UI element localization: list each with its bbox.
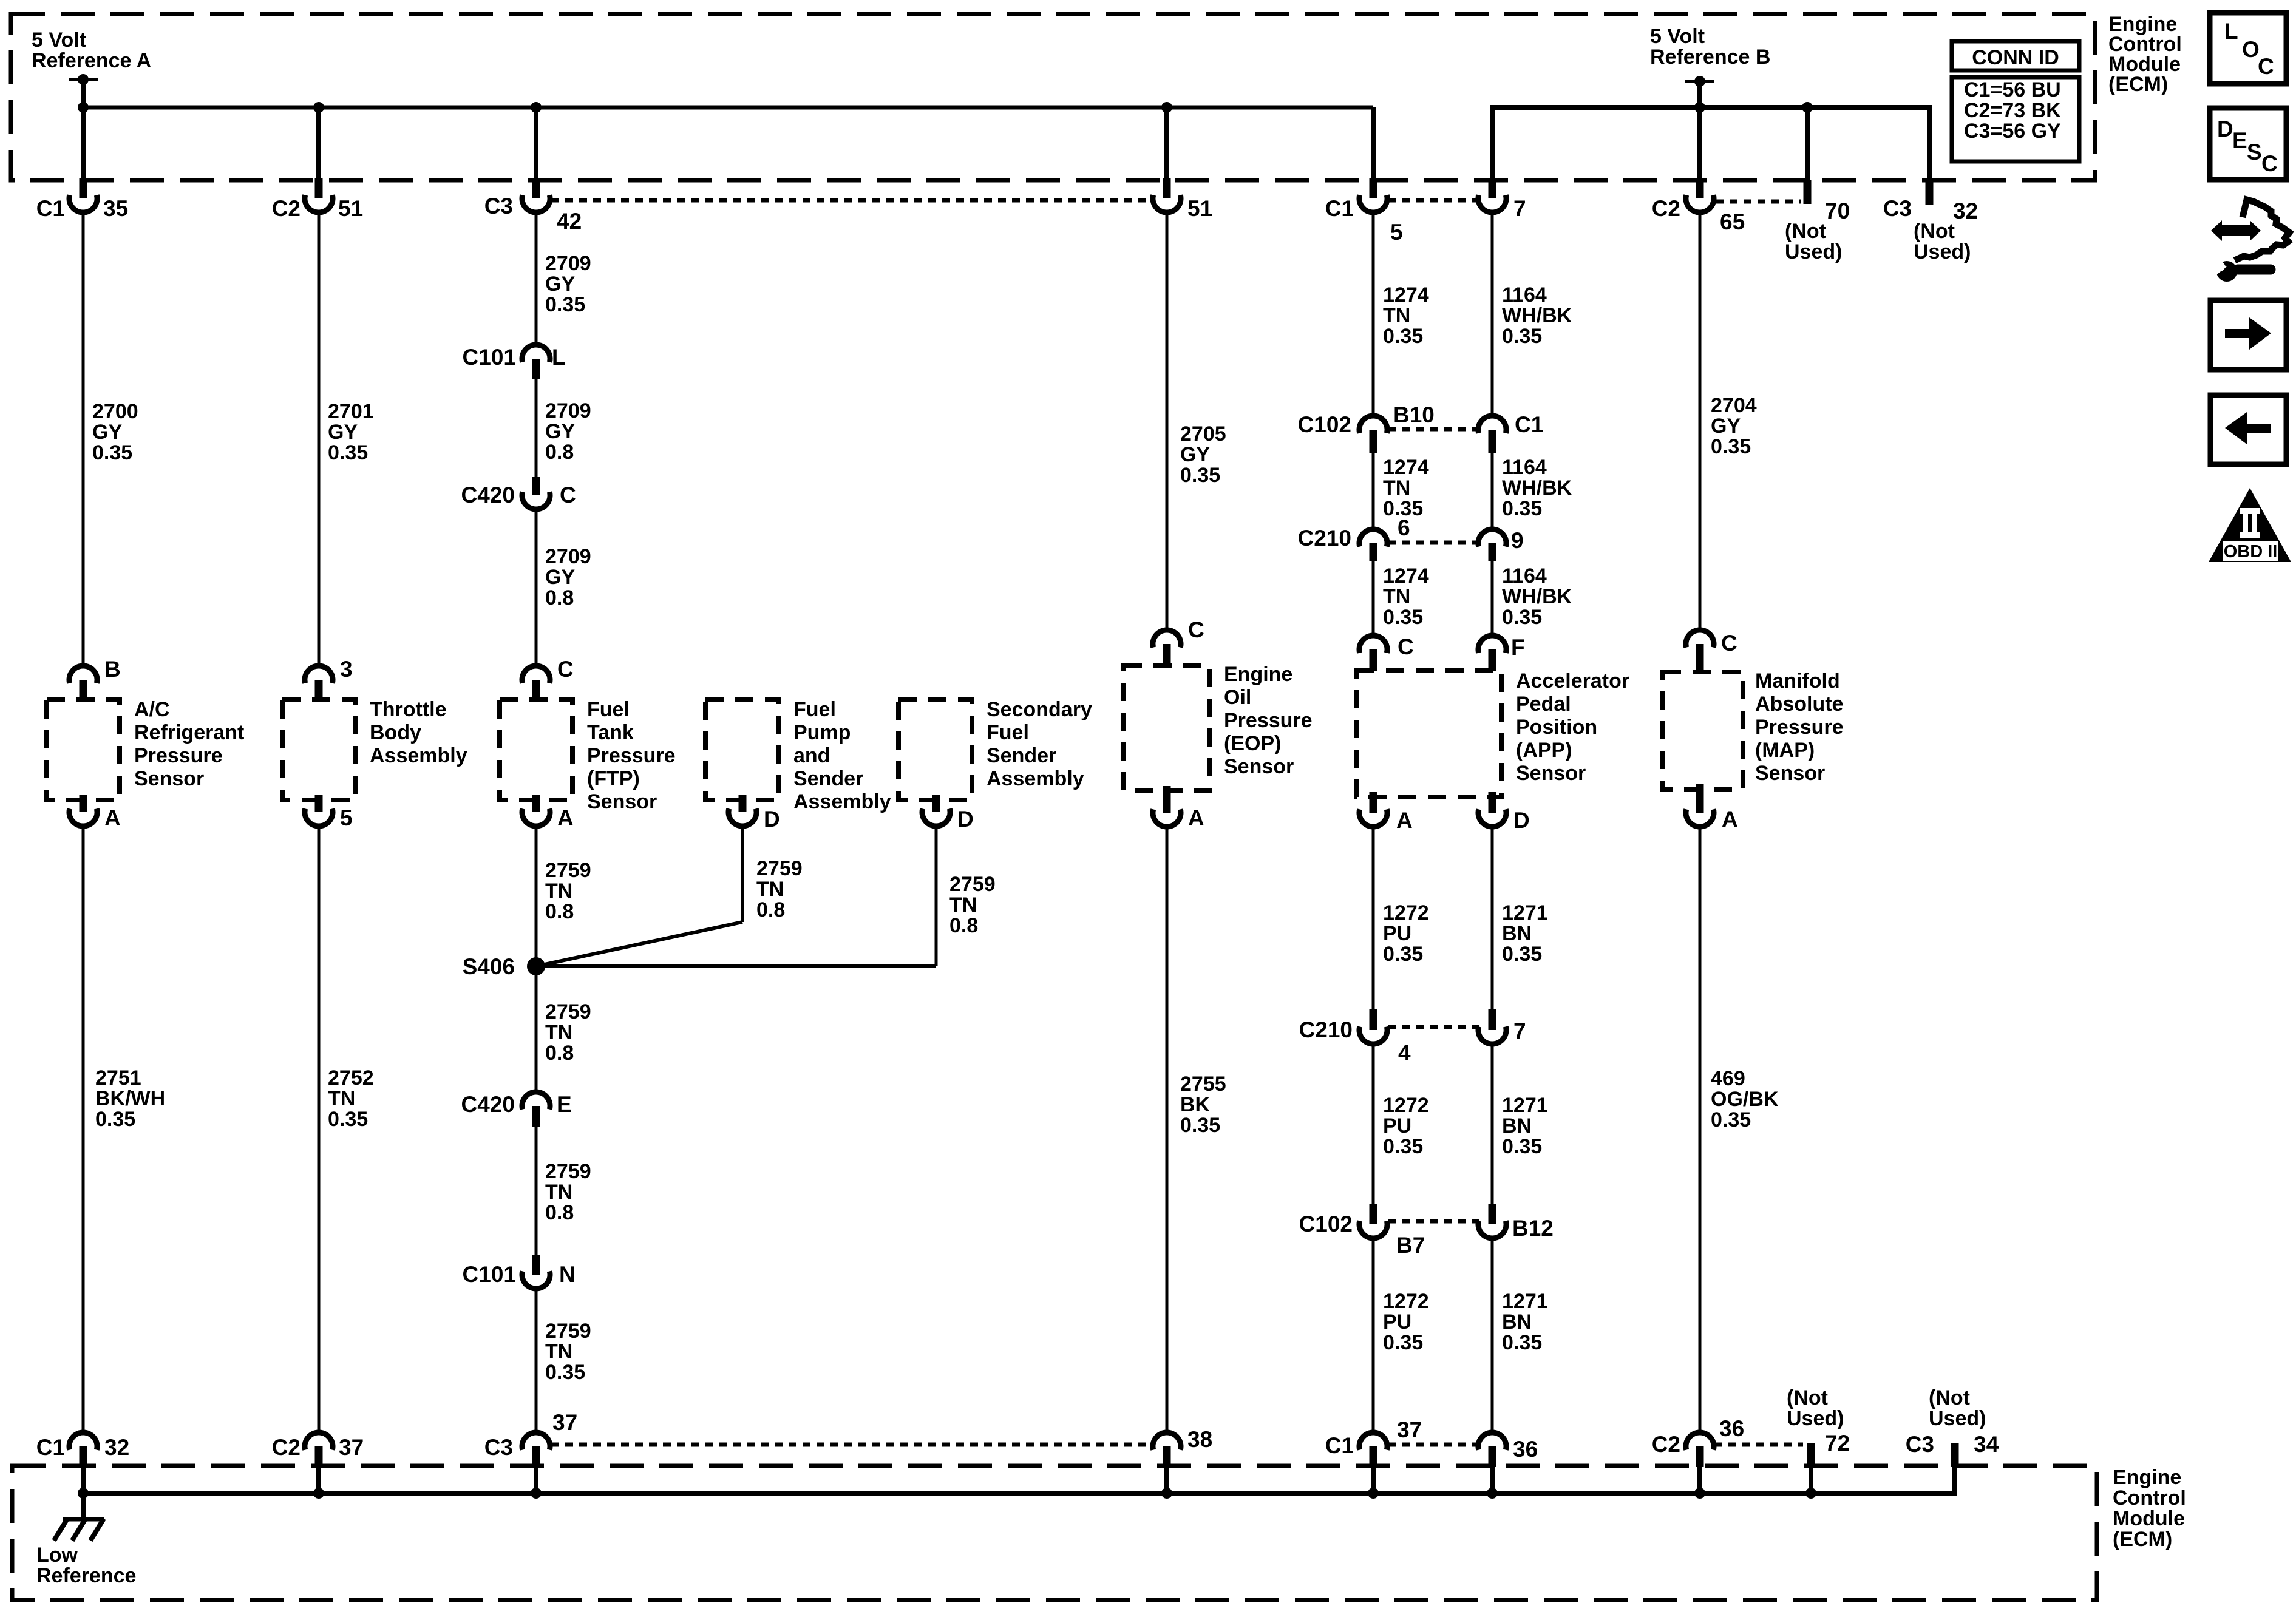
svg-text:Fuel: Fuel — [587, 698, 630, 721]
svg-text:Oil: Oil — [1224, 686, 1251, 709]
wire: bus B to pin C2-65 — [1697, 107, 1702, 180]
svg-text:65: 65 — [1720, 209, 1745, 234]
svg-text:C: C — [2261, 151, 2278, 176]
svg-text:Reference A: Reference A — [32, 49, 151, 72]
svg-text:1274: 1274 — [1383, 283, 1429, 307]
svg-text:Pressure: Pressure — [134, 744, 223, 767]
svg-text:0.8: 0.8 — [545, 900, 574, 923]
svg-text:32: 32 — [1953, 198, 1978, 223]
svg-text:C420: C420 — [461, 1092, 515, 1117]
svg-text:GY: GY — [1711, 415, 1741, 438]
svg-text:D: D — [2217, 117, 2233, 141]
svg-text:2759: 2759 — [545, 1160, 591, 1183]
svg-text:2701: 2701 — [328, 400, 374, 423]
component: Secondary Fuel Sender Assembly — [898, 698, 1092, 800]
ECM pin C2-65 — [1652, 178, 1745, 234]
wire label 1274 TN 0.35 — [1383, 564, 1429, 629]
svg-text:0.8: 0.8 — [545, 441, 574, 464]
junction at pin 38 — [1161, 1488, 1172, 1499]
svg-text:0.8: 0.8 — [545, 586, 574, 609]
inline connector C420 pin E — [461, 1092, 572, 1127]
wire 2709 GY 0.8: C101-L to C420-C — [535, 379, 538, 478]
svg-text:A/C: A/C — [134, 698, 170, 721]
wire label 1272 PU 0.35 — [1383, 901, 1429, 966]
component: A/C Refrigerant Pressure Sensor — [47, 698, 244, 800]
svg-text:C1: C1 — [1325, 196, 1354, 221]
inline connector C102 pin B10 — [1298, 402, 1435, 453]
svg-text:Body: Body — [370, 721, 421, 744]
svg-text:0.35: 0.35 — [1383, 1135, 1423, 1158]
svg-text:PU: PU — [1383, 1114, 1411, 1137]
svg-text:C3: C3 — [1883, 196, 1912, 221]
svg-text:Fuel: Fuel — [793, 698, 836, 721]
svg-text:0.35: 0.35 — [1383, 1331, 1423, 1354]
inline connector C101 pin L — [463, 345, 566, 379]
wire 2705 GY: pin 51 to EOP sensor C — [1166, 212, 1169, 630]
svg-text:BN: BN — [1502, 1114, 1532, 1137]
svg-text:2709: 2709 — [545, 545, 591, 568]
svg-text:C3: C3 — [484, 1435, 513, 1460]
wire label 2705 GY 0.35 — [1180, 422, 1226, 487]
svg-text:2759: 2759 — [545, 1000, 591, 1023]
wire label 1271 BN 0.35 — [1502, 901, 1548, 966]
APP sensor pin F — [1478, 635, 1525, 671]
junction at C3-37 — [531, 1488, 542, 1499]
junction at pin 70 — [1802, 102, 1813, 113]
wire: tick B to bus B — [1697, 81, 1702, 107]
svg-text:C102: C102 — [1298, 412, 1351, 437]
ECM pin C3-42 — [484, 178, 582, 234]
wire 2755 BK: EOP A to pin 38 — [1166, 827, 1169, 1432]
FTP sensor pin C — [522, 657, 574, 700]
svg-text:2759: 2759 — [545, 1320, 591, 1343]
svg-text:37: 37 — [552, 1410, 577, 1435]
svg-text:5 Volt: 5 Volt — [32, 29, 86, 52]
svg-text:(MAP): (MAP) — [1755, 739, 1815, 762]
svg-text:2704: 2704 — [1711, 394, 1757, 417]
wire 1271 BN: C102-B12 to pin 36 — [1491, 1238, 1494, 1432]
net label: Low Reference — [36, 1544, 136, 1587]
wire label 1164 WH/BK 0.35 — [1502, 456, 1572, 520]
ECM pin C2-37 (bottom) — [272, 1432, 364, 1467]
svg-text:Assembly: Assembly — [370, 744, 467, 767]
svg-text:Fuel: Fuel — [987, 721, 1029, 744]
svg-text:2709: 2709 — [545, 252, 591, 275]
svg-text:A: A — [1396, 808, 1413, 833]
wire 2759 TN 0.8: secondary sender D down — [935, 825, 938, 966]
svg-text:A: A — [104, 805, 121, 830]
wire 1274 TN: C1-5 to C102-B10 — [1372, 212, 1375, 415]
svg-text:Sender: Sender — [987, 744, 1056, 767]
MAP sensor pin A — [1686, 784, 1738, 832]
svg-text:37: 37 — [1397, 1417, 1422, 1442]
wire label 2759 TN 0.35 — [545, 1320, 591, 1384]
svg-text:B10: B10 — [1393, 402, 1435, 427]
svg-text:TN: TN — [545, 1340, 572, 1363]
junction at C2-36 — [1694, 1488, 1705, 1499]
inline connector C101 pin N — [463, 1255, 576, 1289]
component: Throttle Body Assembly — [282, 698, 467, 800]
svg-text:C2: C2 — [1652, 1432, 1680, 1457]
wire: diagonal to splice S406 — [536, 922, 742, 966]
svg-text:Module: Module — [2113, 1507, 2185, 1530]
svg-text:Assembly: Assembly — [987, 767, 1084, 790]
svg-text:7: 7 — [1513, 196, 1526, 221]
svg-text:(Not: (Not — [1787, 1386, 1828, 1409]
wire label 1274 TN 0.35 — [1383, 456, 1429, 520]
svg-text:TN: TN — [545, 1021, 572, 1044]
svg-text:TN: TN — [1383, 304, 1410, 327]
ECM pin 36 (C1 bottom) — [1478, 1432, 1538, 1467]
svg-text:1271: 1271 — [1502, 1094, 1548, 1117]
junction at pin 36 — [1487, 1488, 1498, 1499]
wire: horizontal to splice S406 — [536, 964, 936, 968]
svg-text:A: A — [1188, 805, 1204, 830]
FTP sensor pin A — [522, 795, 574, 830]
svg-text:Sensor: Sensor — [1224, 755, 1294, 778]
wire label 469 OG/BK 0.35 — [1711, 1067, 1779, 1131]
svg-text:0.8: 0.8 — [545, 1042, 574, 1065]
wire label 2709 GY 0.8 — [545, 399, 591, 464]
svg-text:Used): Used) — [1914, 240, 1971, 263]
wire: pin 72 to low reference bus — [1809, 1467, 1813, 1493]
svg-text:C: C — [560, 483, 576, 507]
wire: C3-37 to low reference bus — [534, 1467, 538, 1493]
wire: 5V Reference A bus — [83, 106, 1373, 110]
wire: 5V Reference B bus — [1492, 107, 1929, 180]
wire: bus A to pin C2-51 — [316, 107, 321, 180]
svg-text:L: L — [2224, 19, 2238, 44]
wire label 2704 GY 0.35 — [1711, 394, 1757, 458]
component: Manifold Absolute Pressure (MAP) Sensor — [1663, 670, 1844, 789]
wire 2704 GY: C2-65 to MAP sensor C — [1699, 212, 1702, 630]
svg-text:GY: GY — [92, 421, 122, 444]
junction at pin 72 — [1805, 1488, 1816, 1499]
junction at C2-37 — [313, 1488, 324, 1499]
label: Engine Control Module (ECM) top right — [2108, 13, 2182, 96]
wire 2700 GY: C1-35 to A/C sensor B — [82, 212, 85, 666]
svg-text:7: 7 — [1513, 1019, 1526, 1043]
svg-text:GY: GY — [1180, 443, 1210, 466]
inline connector C210 pin 6 — [1298, 515, 1410, 561]
wire 1272 PU: C102-B7 to C1-37 — [1372, 1238, 1375, 1432]
svg-text:2755: 2755 — [1180, 1073, 1226, 1096]
wire label 1271 BN 0.35 — [1502, 1290, 1548, 1354]
svg-text:Absolute: Absolute — [1755, 693, 1843, 716]
wire label 2751 BK/WH 0.35 — [95, 1066, 165, 1131]
connector C210 dotted link 6-9 — [1388, 541, 1479, 545]
svg-text:2709: 2709 — [545, 399, 591, 422]
svg-text:C: C — [1398, 634, 1414, 659]
wire 1271 BN: APP D to C210-7 — [1491, 827, 1494, 1009]
svg-text:Position: Position — [1516, 716, 1597, 739]
connector C3 dotted link 37-38 (bottom) — [551, 1443, 1152, 1447]
svg-text:34: 34 — [1974, 1432, 1999, 1457]
wire label 2709 GY 0.8 — [545, 545, 591, 609]
svg-text:Control: Control — [2113, 1486, 2186, 1510]
wire: tick A to bus A — [81, 80, 86, 107]
svg-text:0.35: 0.35 — [1711, 435, 1751, 458]
svg-text:0.35: 0.35 — [1180, 464, 1220, 487]
wire 2751 BK/WH: A/C sensor A to C1-32 — [82, 825, 85, 1432]
A/C sensor pin A — [69, 795, 121, 830]
svg-text:1164: 1164 — [1502, 456, 1547, 479]
svg-text:OG/BK: OG/BK — [1711, 1088, 1779, 1111]
ECM pin C3-32 (Not Used) stub — [1883, 180, 1978, 263]
inline connector C102 pin C1 — [1478, 412, 1543, 453]
svg-text:469: 469 — [1711, 1067, 1745, 1090]
wire: bus B to pin 70 — [1805, 107, 1810, 180]
wire: bus A to pin 51 — [1164, 107, 1169, 180]
inline connector C420 pin C — [461, 477, 576, 509]
wire label 1274 TN 0.35 — [1383, 283, 1429, 348]
svg-text:2752: 2752 — [328, 1066, 374, 1090]
svg-text:BK: BK — [1180, 1093, 1211, 1116]
svg-text:0.35: 0.35 — [545, 293, 585, 316]
svg-text:C420: C420 — [461, 483, 515, 507]
ground symbol — [54, 1519, 104, 1541]
component: Engine Oil Pressure (EOP) Sensor — [1124, 663, 1313, 791]
svg-text:D: D — [764, 807, 780, 832]
svg-text:C1: C1 — [36, 1435, 65, 1460]
svg-text:36: 36 — [1513, 1437, 1538, 1462]
svg-text:1272: 1272 — [1383, 1094, 1429, 1117]
wire 1272 PU: APP A to C210-4 — [1372, 827, 1375, 1009]
ECM pin C1-35 — [36, 178, 128, 221]
svg-text:Reference: Reference — [36, 1564, 136, 1587]
svg-text:1272: 1272 — [1383, 1290, 1429, 1313]
svg-text:0.8: 0.8 — [949, 914, 978, 937]
svg-text:0.35: 0.35 — [95, 1108, 135, 1131]
connector C2 dotted link 36-72 (bottom) — [1714, 1443, 1803, 1447]
wire 2709 GY 0.35: C3-42 to C101-L — [535, 212, 538, 345]
wire label 2759 TN 0.8 — [756, 857, 803, 921]
wire 1164 WH/BK: C102-C1 to C210-9 — [1491, 453, 1494, 529]
inline connector C210 pin 9 — [1478, 528, 1524, 561]
wire: pin 36 to low reference bus — [1490, 1467, 1495, 1493]
svg-text:Used): Used) — [1929, 1407, 1986, 1430]
wire: bus A drop to pin C1-5 — [1371, 107, 1376, 180]
junction at C1-32 — [78, 1488, 89, 1499]
svg-text:6: 6 — [1398, 515, 1410, 540]
fuel pump pin D — [729, 795, 780, 832]
svg-text:C2=73 BK: C2=73 BK — [1964, 99, 2061, 122]
connector C1 dotted link 37-36 (bottom) — [1388, 1443, 1478, 1447]
svg-text:B12: B12 — [1512, 1216, 1554, 1241]
svg-text:GY: GY — [545, 420, 575, 443]
svg-text:Engine: Engine — [2113, 1466, 2181, 1489]
Engine Control Module (ECM) bottom dashed box — [12, 1466, 2097, 1600]
connector C3 dotted link 42-51 — [551, 198, 1153, 203]
wire: bus A to pin C1-35 — [81, 107, 86, 180]
svg-text:2705: 2705 — [1180, 422, 1226, 446]
svg-text:C: C — [1188, 617, 1204, 642]
svg-text:0.35: 0.35 — [1383, 943, 1423, 966]
svg-text:Refrigerant: Refrigerant — [134, 721, 244, 744]
label: Engine Control Module (ECM) bottom right — [2113, 1466, 2186, 1551]
junction at C2-51 — [313, 102, 324, 113]
svg-text:3: 3 — [340, 657, 353, 682]
svg-text:Used): Used) — [1787, 1407, 1844, 1430]
svg-text:C102: C102 — [1299, 1212, 1353, 1236]
svg-text:51: 51 — [1187, 196, 1212, 221]
svg-text:Pump: Pump — [793, 721, 851, 744]
svg-text:B: B — [104, 657, 121, 682]
icon: right arrow box — [2210, 300, 2286, 370]
svg-text:C1=56 BU: C1=56 BU — [1964, 78, 2061, 101]
svg-text:TN: TN — [545, 1181, 572, 1204]
svg-text:0.35: 0.35 — [1502, 1331, 1542, 1354]
icon: harness repair (arrows and wrench) — [2210, 200, 2289, 282]
svg-text:O: O — [2242, 37, 2260, 62]
5 Volt Reference B feed tick — [1685, 76, 1714, 87]
wire label 1271 BN 0.35 — [1502, 1094, 1548, 1158]
svg-text:Sender: Sender — [793, 767, 863, 790]
ECM pin 51 (C3) — [1153, 178, 1212, 221]
svg-text:0.35: 0.35 — [1383, 606, 1423, 629]
svg-text:(Not: (Not — [1785, 220, 1826, 243]
svg-text:5: 5 — [340, 805, 353, 830]
svg-text:C: C — [1721, 631, 1737, 656]
wire 2759 TN 0.8: S406 to C420-E — [535, 966, 538, 1092]
svg-text:(APP): (APP) — [1516, 739, 1572, 762]
wire label 2701 GY 0.35 — [328, 400, 374, 464]
inline connector C210 pin 4 — [1299, 1009, 1411, 1065]
svg-text:Engine: Engine — [1224, 663, 1292, 686]
wire label 2759 TN 0.8 — [545, 1000, 591, 1065]
svg-text:1274: 1274 — [1383, 456, 1429, 479]
A/C sensor pin B — [69, 657, 121, 700]
APP sensor pin C — [1359, 634, 1414, 671]
svg-text:C: C — [557, 657, 574, 682]
svg-text:1274: 1274 — [1383, 564, 1429, 588]
wire label 2755 BK 0.35 — [1180, 1073, 1226, 1137]
ECM pin 72 (Not Used) stub — [1787, 1386, 1850, 1467]
svg-text:S: S — [2247, 140, 2262, 164]
svg-text:0.35: 0.35 — [1502, 497, 1542, 520]
net label: 5 Volt Reference A — [32, 29, 151, 72]
svg-text:D: D — [957, 807, 974, 832]
icon: OBD II triangle — [2209, 488, 2291, 562]
junction at C1-37 — [1368, 1488, 1379, 1499]
svg-text:9: 9 — [1511, 528, 1524, 553]
svg-text:BN: BN — [1502, 922, 1532, 945]
secondary fuel sender pin D — [922, 795, 974, 832]
svg-text:Sensor: Sensor — [1755, 762, 1825, 785]
svg-text:Low: Low — [36, 1544, 78, 1567]
svg-text:0.35: 0.35 — [1502, 1135, 1542, 1158]
svg-text:42: 42 — [557, 209, 582, 234]
svg-text:C3: C3 — [484, 194, 513, 219]
connector C102 dotted link B10-C1 — [1388, 427, 1479, 432]
svg-text:B7: B7 — [1396, 1233, 1425, 1258]
icon: DESC box — [2210, 108, 2286, 180]
ECM pin 70 (Not Used) stub — [1785, 180, 1850, 263]
wire label 1272 PU 0.35 — [1383, 1094, 1429, 1158]
svg-text:1164: 1164 — [1502, 283, 1547, 307]
throttle body pin 5 — [305, 795, 353, 830]
svg-text:CONN ID: CONN ID — [1972, 46, 2059, 69]
svg-text:WH/BK: WH/BK — [1502, 585, 1572, 608]
wire: C1-32 to low reference bus — [81, 1467, 86, 1493]
svg-text:0.8: 0.8 — [545, 1201, 574, 1224]
svg-text:(EOP): (EOP) — [1224, 732, 1281, 755]
wire 2759 TN 0.8: fuel pump D down — [741, 825, 744, 922]
svg-text:GY: GY — [545, 566, 575, 589]
svg-text:35: 35 — [103, 196, 128, 221]
svg-text:0.35: 0.35 — [1502, 325, 1542, 348]
svg-text:Assembly: Assembly — [793, 790, 891, 813]
junction at C1-35 — [78, 102, 89, 113]
svg-text:C210: C210 — [1298, 526, 1351, 551]
svg-text:F: F — [1511, 635, 1525, 660]
inline connector C102 pin B12 — [1478, 1204, 1554, 1241]
wire: C2-36 to low reference bus — [1697, 1467, 1702, 1493]
svg-text:1272: 1272 — [1383, 901, 1429, 924]
svg-text:Reference B: Reference B — [1650, 46, 1770, 69]
svg-text:70: 70 — [1825, 198, 1850, 223]
wire label 2752 TN 0.35 — [328, 1066, 374, 1131]
wire 2752 TN: throttle body 5 to C2-37 — [318, 825, 321, 1432]
icon: LOC box — [2210, 13, 2286, 84]
svg-text:1271: 1271 — [1502, 1290, 1548, 1313]
svg-text:0.35: 0.35 — [1383, 325, 1423, 348]
ECM pin C2-51 — [272, 178, 363, 221]
wire 2759 TN 0.35: C101-N to C3-37 — [535, 1289, 538, 1432]
svg-text:E: E — [2232, 128, 2247, 153]
svg-text:GY: GY — [545, 273, 575, 296]
wire 1274 TN: C210-6 to APP C — [1372, 561, 1375, 635]
ECM pin C1-32 (bottom) — [36, 1432, 129, 1467]
EOP sensor pin A — [1153, 786, 1204, 830]
wire label 2700 GY 0.35 — [92, 400, 138, 464]
svg-text:0.35: 0.35 — [545, 1361, 585, 1384]
svg-text:TN: TN — [756, 878, 784, 901]
EOP sensor pin C — [1153, 617, 1204, 666]
svg-text:Throttle: Throttle — [370, 698, 447, 721]
svg-text:(ECM): (ECM) — [2113, 1528, 2172, 1551]
connector C102 dotted link B7-B12 — [1388, 1219, 1479, 1224]
wire 2709 GY 0.8: C420-C to FTP sensor C — [535, 509, 538, 666]
svg-text:OBD II: OBD II — [2224, 542, 2278, 561]
svg-text:0.35: 0.35 — [1711, 1108, 1751, 1131]
inline connector C210 pin 7 — [1478, 1009, 1526, 1044]
connector C1 dotted link 5-7 — [1388, 198, 1478, 203]
wire label 2709 GY 0.35 — [545, 252, 591, 316]
svg-text:Pressure: Pressure — [587, 744, 676, 767]
svg-text:5: 5 — [1390, 220, 1403, 245]
svg-text:PU: PU — [1383, 1310, 1411, 1334]
svg-text:C3=56 GY: C3=56 GY — [1964, 120, 2061, 143]
ECM pin C3-34 (Not Used) stub — [1906, 1386, 1999, 1467]
svg-text:51: 51 — [338, 196, 363, 221]
svg-text:GY: GY — [328, 421, 358, 444]
svg-text:L: L — [552, 345, 566, 370]
svg-text:0.35: 0.35 — [328, 1108, 368, 1131]
svg-text:36: 36 — [1719, 1416, 1744, 1441]
wire: low reference bus — [83, 1467, 1955, 1493]
svg-text:TN: TN — [1383, 585, 1410, 608]
svg-text:Sensor: Sensor — [1516, 762, 1586, 785]
svg-text:C1: C1 — [1325, 1433, 1354, 1458]
svg-text:(Not: (Not — [1929, 1386, 1970, 1409]
wire 2759 TN 0.8: C420-E to C101-N — [535, 1127, 538, 1255]
svg-text:Pedal: Pedal — [1516, 693, 1571, 716]
svg-text:0.8: 0.8 — [756, 898, 785, 921]
svg-text:BN: BN — [1502, 1310, 1532, 1334]
ECM pin C1-5 — [1325, 178, 1403, 245]
connector C2 dotted link 65-70 — [1716, 200, 1801, 204]
